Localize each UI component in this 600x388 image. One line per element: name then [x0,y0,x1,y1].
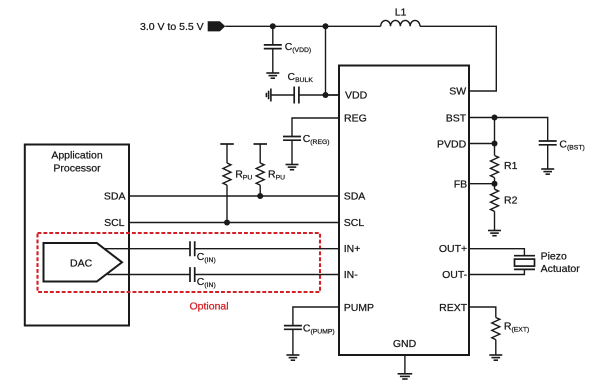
junction SDA/RPU [257,193,263,199]
wire SCL [130,222,339,224]
wire DAC to C(IN) bottom [108,274,191,276]
wire C(REG) to ground [291,140,293,164]
wire BST pin to C(BST) [469,118,548,142]
svg-text:R2: R2 [504,194,518,206]
svg-text:Piezo: Piezo [541,250,567,262]
DAC block [44,243,123,282]
wire C(BULK) to VDD node [299,94,339,96]
junction FB node [492,181,498,187]
wire RPU right to SDA [259,185,261,196]
svg-text:Actuator: Actuator [541,263,581,275]
rotated ground at C(BULK) [266,89,271,102]
svg-text:CBULK: CBULK [288,71,314,84]
wire GND pin to ground [404,356,406,374]
junction BST node [492,115,498,121]
svg-text:IN-: IN- [344,269,359,281]
ground under C(BST) [541,169,554,174]
ground under C(REG) [286,165,299,170]
svg-text:L1: L1 [395,7,407,19]
svg-text:C(IN): C(IN) [197,251,216,264]
svg-text:R(EXT): R(EXT) [504,321,529,334]
wire C(VDD) branch [272,26,274,45]
capacitor C(BULK) [288,71,314,103]
junction VDD node [323,92,329,98]
wire supply rail to L1 [225,25,380,27]
resistor RPU (SCL) [223,144,252,185]
optional red dashed box [38,233,321,292]
junction PVDD node [492,141,498,147]
junction supply/C(VDD) [270,23,276,29]
capacitor C(PUMP) [284,323,335,336]
svg-text:Application: Application [51,150,103,162]
svg-text:Optional: Optional [190,301,229,313]
resistor RPU (SDA) [256,144,285,185]
supply terminal 3.0 V to 5.5 V [140,21,225,33]
wire DAC to C(IN) top [105,248,190,250]
wire C(IN) top to IN+ [195,248,339,250]
pull-up rail terminal left [220,143,234,145]
wire BST to PVDD node [494,118,496,156]
svg-text:C(PUMP): C(PUMP) [303,323,335,336]
svg-text:SDA: SDA [104,191,126,203]
resistor R1 [491,156,518,178]
wire VDD drop [326,26,339,95]
wire C(IN) bottom to IN- [195,274,339,276]
resistor R(EXT) [492,318,529,340]
wire L1 to SW pin [420,26,496,91]
wire SDA [130,195,339,197]
wire PVDD pin [469,143,495,145]
svg-text:REG: REG [344,113,367,125]
wire C(BST) to ground [547,145,549,169]
wire C(PUMP) to ground [292,329,294,355]
wire R(EXT) to ground [495,340,497,355]
ground under GND pin [398,374,413,379]
capacitor C(VDD) [264,41,311,54]
application processor box [25,145,129,326]
wire PUMP pin [293,307,339,326]
capacitor C(BST) [539,139,585,152]
pull-up rail terminal right [254,143,268,145]
wire R1 to FB node [494,178,496,190]
ground under C(VDD) [266,73,279,78]
ground under C(PUMP) [286,355,299,360]
svg-text:FB: FB [454,178,467,190]
svg-text:R1: R1 [504,160,518,172]
wire piezo to OUT- [469,269,524,274]
junction supply/VDD drop [323,23,329,29]
junction SCL/RPU [224,220,230,226]
label Application Processor [51,150,103,175]
svg-text:BST: BST [446,112,467,124]
svg-text:SW: SW [449,86,466,98]
svg-text:C(VDD): C(VDD) [285,41,311,54]
wire RPU left to SCL [226,185,228,222]
piezo actuator symbol [514,250,580,275]
svg-text:OUT+: OUT+ [439,243,467,255]
svg-text:RPU: RPU [235,169,252,182]
svg-text:PUMP: PUMP [344,302,374,314]
svg-text:RPU: RPU [268,169,285,182]
svg-text:C(BST): C(BST) [559,139,584,152]
svg-text:Processor: Processor [53,163,101,175]
capacitor C(IN) bottom [190,267,216,289]
wire OUT+ to piezo [469,249,524,256]
svg-text:PVDD: PVDD [437,138,467,150]
wire FB pin [469,183,495,185]
wire REG pin [292,118,339,137]
svg-text:GND: GND [393,338,417,350]
wire ground to C(BULK) [271,94,294,96]
wire C(VDD) to ground [272,49,274,73]
svg-text:C(IN): C(IN) [197,276,216,289]
ground under R(EXT) [489,355,502,360]
svg-text:DAC: DAC [70,257,93,269]
resistor R2 [491,189,518,211]
svg-text:3.0 V to 5.5 V: 3.0 V to 5.5 V [140,21,204,33]
svg-text:OUT-: OUT- [442,269,468,281]
wire REXT pin to R(EXT) [469,307,496,318]
ground under R2 [488,231,501,236]
IC U1 body [339,66,469,356]
wire R2 to ground [494,211,496,230]
capacitor C(IN) top [190,241,216,264]
svg-text:IN+: IN+ [344,243,361,255]
svg-text:SDA: SDA [344,191,366,203]
svg-text:SCL: SCL [104,217,125,229]
svg-text:REXT: REXT [439,302,468,314]
svg-text:C(REG): C(REG) [303,133,330,146]
inductor L1 [381,7,420,27]
capacitor C(REG) [283,133,330,146]
svg-text:SCL: SCL [344,217,365,229]
svg-text:VDD: VDD [345,89,368,101]
